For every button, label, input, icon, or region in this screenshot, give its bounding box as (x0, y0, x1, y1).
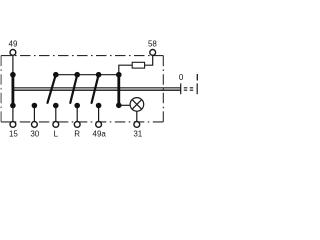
svg-text:15: 15 (9, 130, 18, 139)
svg-text:49a: 49a (93, 130, 107, 139)
svg-text:49: 49 (9, 39, 18, 48)
svg-text:0: 0 (179, 73, 184, 82)
svg-text:R: R (74, 130, 80, 139)
svg-text:58: 58 (148, 39, 157, 48)
svg-text:30: 30 (30, 130, 39, 139)
svg-text:31: 31 (133, 129, 142, 138)
svg-text:L: L (54, 130, 59, 139)
